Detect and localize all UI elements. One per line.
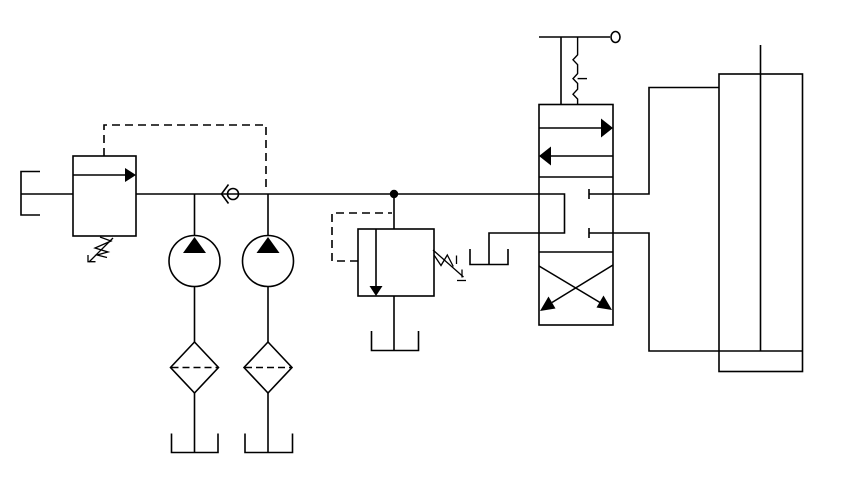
tank T4 <box>470 249 508 265</box>
valve V2 pilot line (dashed) <box>332 213 392 261</box>
tank T3 <box>372 331 419 351</box>
relief valve V1 body <box>73 156 136 236</box>
wire: filter F2 to tank T2 <box>267 393 269 452</box>
wire: tank T0 to relief valve inlet <box>21 193 73 195</box>
DCV neutral position P-T bypass <box>539 194 565 233</box>
wire: junction to valve V2 inlet <box>393 194 395 229</box>
valve V2 flow arrow (down) <box>370 229 383 296</box>
DCV lever bar <box>539 36 610 38</box>
relief valve V1 adjustable spring <box>88 237 113 262</box>
tank T0 (left reservoir, open to right) <box>21 172 40 216</box>
pump P2 <box>243 236 294 287</box>
cylinder C1 rod <box>760 45 762 351</box>
cylinder C1 body <box>719 74 803 372</box>
directional valve DCV body <box>539 105 613 326</box>
pilot line (dashed) relief valve to main line at pump P2 junction <box>104 125 266 192</box>
DCV position 3 crossed arrow (to lower left) <box>540 265 613 311</box>
wire: filter F1 to tank T1 <box>194 393 196 452</box>
cylinder C1 piston <box>719 350 803 352</box>
relief valve V1 flow arrow <box>73 168 136 182</box>
wire: DCV port A to cylinder cap end <box>613 88 719 195</box>
DCV position 1 arrow left <box>539 147 613 166</box>
wire: main pressure line <box>136 193 539 195</box>
valve V2 adjustable spring <box>433 250 466 281</box>
DCV position 1 arrow right <box>539 119 613 138</box>
filter F1 <box>171 342 219 393</box>
junction node (main line to valve V2) <box>390 190 398 198</box>
DCV neutral position blocked port B <box>589 228 613 238</box>
wire: pump P2 to filter F2 <box>267 287 269 343</box>
DCV lever roller <box>611 32 620 43</box>
tank T1 <box>172 434 219 453</box>
filter F2 <box>244 342 292 393</box>
wire: pump P1 riser <box>194 194 196 236</box>
wire: valve V2 outlet to tank T3 <box>393 296 395 350</box>
wire: DCV port B to cylinder rod end <box>613 233 719 351</box>
wire: pump P2 riser <box>267 194 269 236</box>
DCV actuator rod <box>560 37 562 105</box>
wire: DCV drain to tank T4 <box>489 233 539 264</box>
check valve CV1 <box>222 185 239 204</box>
pressure valve V2 body <box>358 229 434 296</box>
DCV return spring <box>573 37 587 105</box>
DCV neutral position blocked port A <box>589 189 613 199</box>
wire: pump P1 to filter F1 <box>194 287 196 343</box>
pump P1 <box>169 236 220 287</box>
tank T2 <box>245 434 293 453</box>
DCV position 3 crossed arrow (to lower right) <box>539 266 612 310</box>
